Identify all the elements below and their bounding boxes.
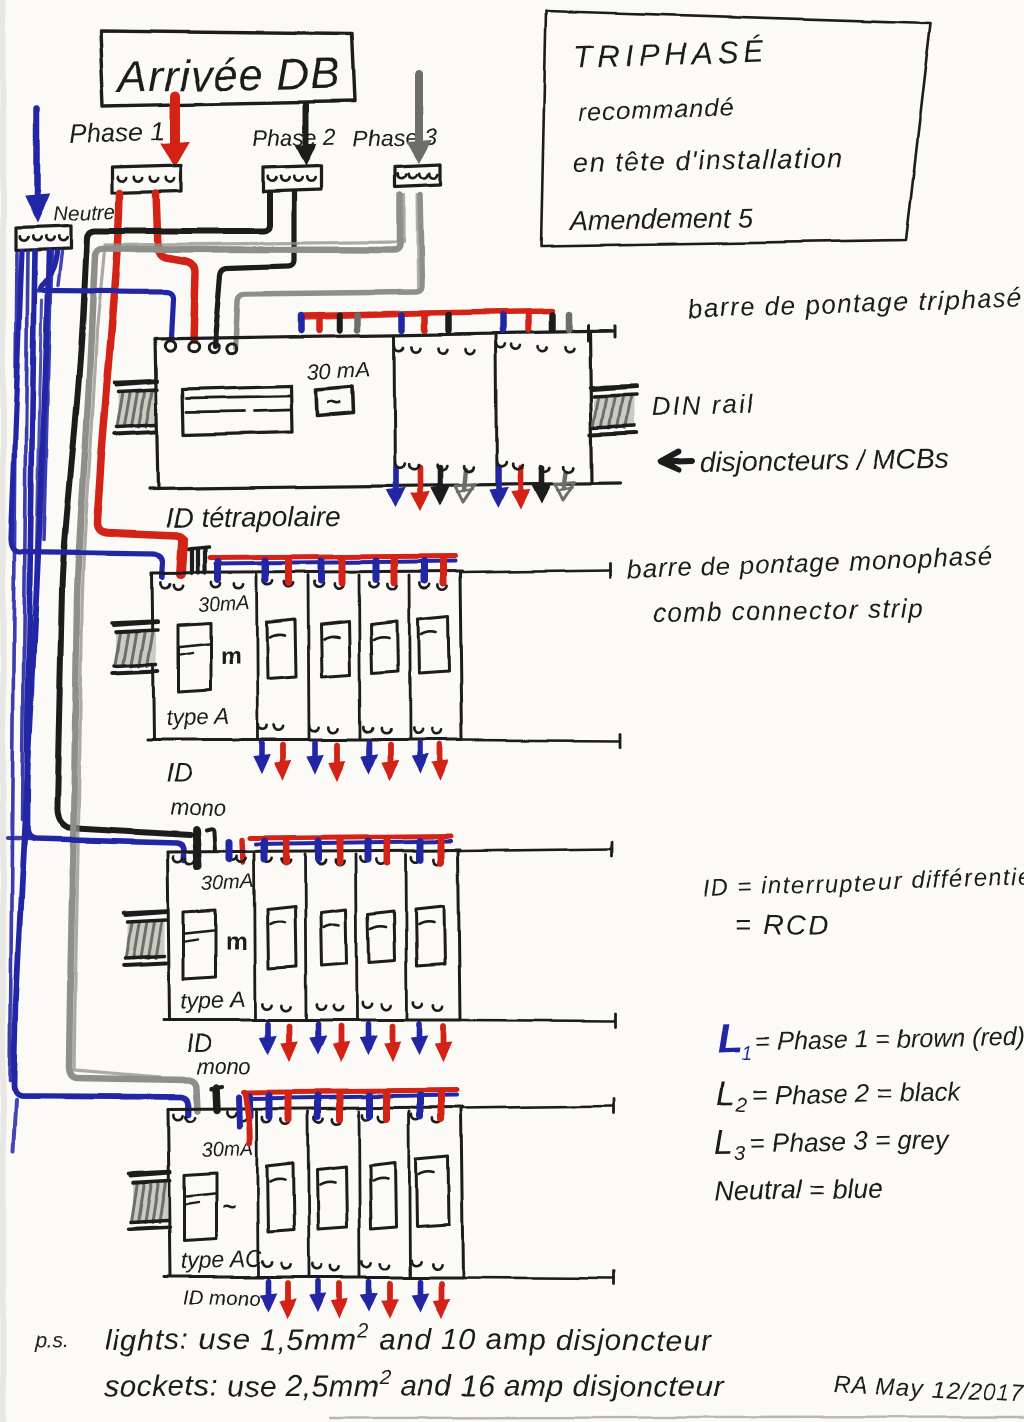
svg-text:Phase 1: Phase 1 [69, 116, 165, 149]
svg-text:sockets: use 2,5mm2 and 16: sockets: use 2,5mm2 and 16 amp disjoncte… [104, 1367, 724, 1403]
svg-text:= Phase 1 = brown (red): = Phase 1 = brown (red) [756, 1023, 1024, 1056]
svg-text:~: ~ [326, 387, 341, 417]
svg-text:en tête d'installation: en tête d'installation [573, 143, 844, 178]
svg-text:Amendement 5: Amendement 5 [568, 203, 755, 236]
svg-text:L: L [713, 1124, 733, 1162]
svg-text:Neutre: Neutre [52, 201, 116, 226]
svg-text:L: L [715, 1076, 735, 1114]
svg-text:type A: type A [180, 986, 245, 1014]
svg-text:L: L [717, 1014, 744, 1062]
svg-text:= Phase 3 = grey: = Phase 3 = grey [750, 1125, 951, 1158]
svg-text:30mA: 30mA [197, 592, 250, 617]
svg-text:disjoncteurs / MCBs: disjoncteurs / MCBs [700, 443, 949, 478]
svg-text:m: m [226, 929, 247, 956]
svg-text:1: 1 [742, 1043, 753, 1065]
svg-text:mono: mono [170, 795, 225, 820]
svg-text:m: m [220, 643, 241, 670]
svg-text:ID tétrapolaire: ID tétrapolaire [165, 500, 341, 534]
svg-text:30mA: 30mA [201, 1137, 254, 1162]
svg-text:~: ~ [222, 1193, 236, 1220]
svg-text:p.s.: p.s. [34, 1330, 69, 1353]
svg-text:= Phase 2 = black: = Phase 2 = black [752, 1076, 963, 1110]
svg-text:3: 3 [734, 1143, 745, 1165]
svg-text:ID: ID [166, 758, 192, 788]
svg-text:30mA: 30mA [201, 870, 254, 895]
svg-text:mono: mono [196, 1054, 251, 1079]
svg-text:TRIPHASÉ: TRIPHASÉ [573, 33, 769, 75]
svg-text:2: 2 [735, 1095, 747, 1117]
svg-text:Phase 2: Phase 2 [251, 123, 336, 152]
svg-text:DIN rail: DIN rail [651, 388, 755, 422]
svg-text:type A: type A [165, 703, 230, 731]
svg-text:ID mono: ID mono [184, 1288, 260, 1310]
svg-text:Arrivée DB: Arrivée DB [114, 49, 341, 102]
svg-text:Neutral = blue: Neutral = blue [714, 1173, 883, 1206]
svg-text:lights: use 1,5mm2 and 10: lights: use 1,5mm2 and 10 amp disjoncteu… [105, 1321, 712, 1357]
svg-text:type AC: type AC [180, 1245, 262, 1274]
svg-text:recommandé: recommandé [578, 94, 735, 127]
svg-text:30 mA: 30 mA [306, 357, 371, 385]
svg-text:= RCD: = RCD [735, 909, 830, 940]
svg-text:comb connector strip: comb connector strip [653, 593, 925, 628]
